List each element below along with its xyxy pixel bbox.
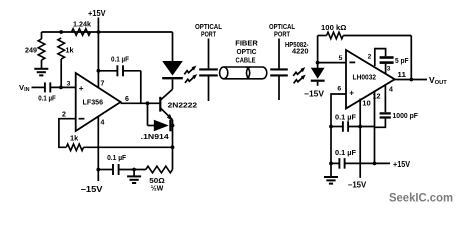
label 0.1uF input — [38, 96, 56, 103]
svg-text:CABLE: CABLE — [236, 55, 256, 64]
label 4220 — [292, 47, 309, 56]
node pin10 junction — [358, 125, 362, 129]
wire +15V rail — [42, 31, 173, 33]
svg-text:2N2222: 2N2222 — [168, 101, 198, 110]
node rail junction at +15V — [97, 30, 101, 34]
LED light arrow 2 — [185, 74, 197, 83]
svg-text:PORT: PORT — [201, 30, 216, 39]
node 1N914 cathode junction — [171, 124, 175, 128]
capacitor 0.1uF upper — [331, 121, 375, 132]
node pin3 junction — [59, 86, 63, 90]
label pin 4 LH — [389, 87, 393, 94]
wire pin 6 to ground rail — [331, 94, 346, 163]
wire ground stub — [133, 170, 135, 177]
label pin 7 — [101, 81, 105, 88]
label pin 3 — [67, 81, 71, 88]
label HP5082- — [285, 40, 309, 49]
label pin 3 — [387, 65, 391, 72]
label VIN — [19, 83, 30, 93]
svg-text:3: 3 — [67, 81, 71, 88]
label CABLE — [236, 55, 256, 64]
resistor 50ohm — [146, 166, 173, 173]
svg-text:0.1 µF: 0.1 µF — [107, 153, 127, 162]
svg-text:7: 7 — [101, 81, 105, 88]
svg-text:4: 4 — [389, 87, 393, 94]
wire pin 12 drop — [374, 91, 376, 164]
svg-text:.1N914: .1N914 — [141, 132, 169, 141]
capacitor 0.1uF pin7 bypass — [98, 65, 140, 103]
node pin12 junction — [373, 162, 377, 166]
svg-text:LF356: LF356 — [83, 98, 104, 107]
svg-text:1k: 1k — [65, 45, 74, 54]
wire feedback top — [318, 35, 327, 37]
svg-text:0.1 µF: 0.1 µF — [335, 148, 357, 157]
wire +15V drop to pin 7 — [97, 18, 99, 88]
svg-text:−15V: −15V — [348, 180, 367, 189]
svg-text:10: 10 — [362, 101, 371, 108]
label half watt — [151, 184, 164, 193]
ground at 249 — [34, 69, 48, 76]
wire ground stub LH — [330, 163, 332, 177]
optical port 2 — [270, 39, 288, 101]
resistor 249 — [38, 32, 45, 69]
label pin 12 — [373, 94, 381, 101]
label watermark SeekIC.com — [389, 191, 453, 205]
wire cap to pin 3 — [50, 86, 75, 88]
capacitor 0.1uF input — [45, 82, 50, 92]
label 1N914 — [141, 132, 169, 141]
svg-text:−15V: −15V — [81, 185, 104, 194]
label OPTICAL port2 — [269, 22, 295, 31]
optical port 1 — [199, 39, 218, 102]
label OPTICAL port1 — [195, 22, 222, 31]
label 100k — [321, 23, 346, 32]
node output VOUT junction — [409, 78, 413, 82]
svg-text:1.24k: 1.24k — [73, 20, 92, 29]
wire pin 5 input — [318, 62, 346, 64]
label pin 2 — [368, 53, 372, 60]
ground at LH0032 — [324, 177, 338, 184]
ground at 50ohm — [127, 176, 141, 183]
svg-text:6: 6 — [125, 96, 129, 103]
label pin 5 — [339, 55, 343, 62]
svg-text:0.1 µF: 0.1 µF — [38, 96, 56, 103]
photodiode light arrow 1 — [293, 67, 305, 76]
wire LF356 output — [121, 102, 160, 104]
label -15V pin10 — [348, 180, 367, 189]
label 1000pF — [393, 111, 419, 120]
svg-text:0.1 µF: 0.1 µF — [335, 112, 357, 121]
node pin4 bypass junction — [96, 168, 100, 172]
fiber optic cable — [220, 67, 267, 79]
node ground junction 50ohm — [132, 168, 136, 172]
capacitor 0.1uF lower — [331, 158, 390, 169]
label pin 4 — [101, 120, 105, 127]
label PORT port2 — [274, 30, 290, 39]
transistor Q1 2N2222 — [160, 89, 173, 121]
label 1.24k — [73, 20, 92, 29]
label +15V right — [393, 160, 410, 169]
label pin 2 — [62, 111, 66, 118]
svg-text:6: 6 — [337, 86, 341, 93]
label 0.1uF pin4 — [107, 153, 127, 162]
label 1k input — [65, 45, 74, 54]
wire pin 4 drop — [97, 117, 99, 182]
capacitor 1000pF — [375, 113, 391, 127]
label pin 11 — [397, 72, 406, 79]
svg-text:+15V: +15V — [393, 160, 410, 169]
node output junction — [146, 101, 150, 105]
label pin 10 — [362, 101, 371, 108]
label 50ohm — [149, 176, 165, 185]
label FIBER — [235, 39, 258, 48]
label pin 6 — [337, 86, 341, 93]
svg-text:1k: 1k — [70, 134, 79, 143]
svg-text:2: 2 — [62, 111, 66, 118]
label -15V photodiode — [304, 89, 325, 98]
photodiode light arrow 2 — [294, 75, 306, 84]
svg-text:LH0032: LH0032 — [353, 72, 377, 81]
node pin7 bypass junction — [97, 69, 101, 73]
node bypass rail junction 1 — [329, 125, 333, 129]
wire LED anode drop — [172, 32, 174, 61]
wire feedback top right — [343, 36, 411, 80]
LED D1 — [162, 61, 183, 89]
label VOUT — [429, 75, 447, 86]
svg-text:+: + — [79, 84, 84, 93]
svg-text:½W: ½W — [151, 184, 164, 193]
svg-text:5 pF: 5 pF — [395, 56, 409, 65]
node rail junction at 1k — [59, 30, 63, 34]
svg-text:+15V: +15V — [88, 8, 106, 18]
node feedback-emitter junction — [171, 145, 175, 149]
label 5pF — [395, 56, 409, 65]
label 249 — [25, 45, 37, 54]
label PORT port1 — [201, 30, 216, 39]
resistor 1k input — [58, 38, 65, 87]
svg-text:SeekIC.com: SeekIC.com — [389, 191, 453, 205]
wire pin2 feedback loop — [59, 119, 76, 148]
wire feedback to emitter — [84, 146, 173, 148]
svg-text:11: 11 — [397, 72, 406, 79]
svg-text:+: + — [349, 88, 354, 97]
wire emitter drop — [172, 120, 174, 170]
svg-text:3: 3 — [387, 65, 391, 72]
label +15V supply — [88, 8, 106, 18]
label 2N2222 — [168, 101, 198, 110]
label 0.1uF upper — [335, 112, 357, 121]
label pin 6 — [125, 96, 129, 103]
wire output VOUT — [395, 79, 427, 81]
label 1k feedback — [70, 134, 79, 143]
resistor 100k — [327, 32, 344, 39]
LED light arrow 1 — [184, 66, 196, 75]
svg-text:1000 pF: 1000 pF — [393, 111, 419, 120]
resistor 1k feedback — [66, 144, 83, 151]
photodiode D3 HP5082-4220 — [311, 36, 325, 86]
label 0.1uF lower — [335, 148, 357, 157]
svg-text:2: 2 — [368, 53, 372, 60]
label 0.1uF pin7 — [111, 56, 130, 63]
svg-text:4220: 4220 — [292, 47, 309, 56]
diode D2 1N914 — [148, 103, 173, 131]
svg-text:0.1 µF: 0.1 µF — [111, 56, 130, 63]
node photodiode junction — [316, 61, 320, 65]
op-amp U1 LF356 — [76, 73, 121, 131]
svg-text:−15V: −15V — [304, 89, 325, 98]
label OPTIC — [237, 47, 258, 56]
svg-text:100 kΩ: 100 kΩ — [321, 23, 346, 32]
resistor 1.24k — [72, 29, 91, 36]
wire VIN to coupling cap — [32, 86, 45, 88]
svg-text:4: 4 — [101, 120, 105, 127]
capacitor 0.1uF pin4 bypass — [98, 164, 146, 175]
label -15V LF356 — [81, 185, 104, 194]
wire pin 10 drop — [359, 99, 361, 178]
wire pin 4 to 1000pF — [384, 84, 386, 112]
node ground rail lower junction — [329, 162, 333, 166]
svg-text:5: 5 — [339, 55, 343, 62]
op-amp U2 LH0032 — [346, 50, 395, 109]
capacitor 5pF comp — [375, 49, 394, 74]
svg-text:PORT: PORT — [274, 30, 290, 39]
svg-text:249: 249 — [25, 45, 37, 54]
